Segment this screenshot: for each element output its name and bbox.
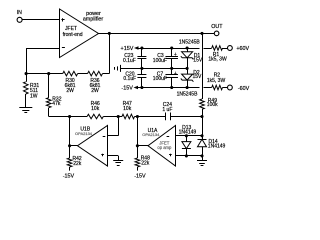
node R32 junction [47, 72, 50, 75]
svg-text:1N5245B: 1N5245B [177, 91, 199, 97]
terminal +60V [228, 46, 250, 53]
op-amp U1B OPA2134 [75, 126, 108, 167]
resistor R48 22k [135, 146, 150, 171]
resistor R47 10k [122, 101, 135, 119]
node C7 bottom junction [170, 86, 173, 89]
label 1N5245B bottom [177, 91, 199, 97]
capacitor C24 1uF [162, 102, 172, 120]
svg-text:1k5, 3W: 1k5, 3W [208, 57, 227, 63]
op-amp U1A OPA2134 [142, 126, 175, 167]
zener diode D1 1N5245B 15V [181, 48, 203, 68]
capacitor C23 0.1uF [123, 48, 146, 68]
node U1A output tip junction [136, 144, 139, 147]
ground at middle rail [115, 65, 121, 72]
ground at U1B non-inverting input [113, 161, 123, 166]
node C20 bottom junction [140, 86, 143, 89]
wire U1B inverting input [108, 117, 119, 136]
resistor R49 100k [200, 33, 218, 116]
node D1 top junction [186, 46, 189, 49]
wire lower feedback net [49, 116, 202, 118]
svg-text:+60V: +60V [236, 46, 249, 52]
svg-text:100uF: 100uF [153, 58, 167, 64]
svg-text:1k5, 3W: 1k5, 3W [207, 78, 226, 84]
resistor R31 511 1W [24, 74, 40, 108]
resistor R32 47k [46, 74, 61, 117]
svg-text:OUT: OUT [211, 24, 223, 30]
svg-text:22k: 22k [73, 161, 82, 167]
svg-text:+15V: +15V [121, 46, 134, 52]
node output junction [108, 32, 111, 35]
power tag -15V below R48 [134, 173, 146, 179]
label 1N5245B top [179, 39, 201, 45]
svg-text:1N4149: 1N4149 [208, 144, 226, 150]
wire feedback drop from output [109, 33, 111, 73]
output terminal OUT [211, 24, 223, 36]
node U1B inverting junction [117, 115, 120, 118]
node D13 top junction [185, 134, 188, 137]
wire U1B non-inverting input [108, 156, 119, 161]
svg-text:-60V: -60V [238, 86, 250, 92]
svg-text:15V: 15V [193, 57, 203, 63]
wire U1A inverting input [176, 117, 203, 136]
resistor R30 6k81 2W [63, 71, 78, 94]
svg-text:-15V: -15V [121, 85, 133, 91]
wire -15V rail [138, 87, 212, 89]
power tag -15V below R42 [63, 173, 75, 179]
node C23 bottom junction [140, 67, 143, 70]
capacitor C7 100uF [153, 68, 178, 87]
node C23 top junction [140, 46, 143, 49]
wire U1A non-inverting input [176, 156, 203, 161]
svg-text:47k: 47k [52, 101, 61, 107]
wire amplifier output to OUT [98, 33, 214, 35]
svg-text:+: + [174, 52, 177, 58]
svg-text:op amp: op amp [157, 145, 172, 150]
diode D13 1N4149 [179, 125, 197, 156]
svg-text:2W: 2W [66, 88, 74, 94]
wire +15V rail [139, 48, 212, 50]
svg-text:-15V: -15V [134, 173, 146, 179]
node R31 junction [25, 72, 28, 75]
svg-text:front-end: front-end [63, 32, 83, 38]
node D2 bottom junction [186, 86, 189, 89]
svg-text:OPA2134: OPA2134 [142, 132, 160, 137]
diode D14 1N4149 [198, 136, 226, 156]
node D13 bottom junction [185, 154, 188, 157]
zener diode D2 1N5245B 15V [181, 68, 202, 87]
svg-text:amplifier: amplifier [83, 17, 104, 23]
node U1B output tip junction [68, 144, 71, 147]
node C3 bottom junction [170, 67, 173, 70]
terminal -60V [228, 85, 250, 92]
node C24 left junction [136, 115, 139, 118]
resistor R42 22k [67, 146, 82, 171]
power tag -15V [121, 85, 138, 91]
ground at U1A non-inverting input [197, 161, 207, 166]
svg-text:-15V: -15V [63, 173, 75, 179]
svg-text:1N5245B: 1N5245B [179, 39, 201, 45]
node servo input junction [200, 115, 203, 118]
svg-text:OPA2134: OPA2134 [75, 131, 93, 136]
wire U1B output [70, 117, 78, 146]
input terminal IN [17, 10, 22, 22]
wire inverting input of power amp [26, 48, 59, 73]
svg-text:0.1uF: 0.1uF [123, 58, 136, 64]
node D1 bottom junction [186, 67, 189, 70]
ground below R31 [19, 108, 32, 113]
svg-text:100uF: 100uF [153, 76, 167, 82]
svg-text:15V: 15V [193, 74, 203, 80]
wire feedback net [26, 73, 109, 75]
svg-text:100k: 100k [207, 102, 218, 108]
svg-text:1N4149: 1N4149 [179, 129, 197, 135]
svg-text:1W: 1W [30, 94, 38, 100]
svg-text:10k: 10k [91, 106, 100, 112]
wire IN to amplifier + input [22, 19, 59, 21]
resistor R2 1k5 3W [207, 73, 228, 90]
svg-text:IN: IN [17, 10, 22, 16]
node U1B output junction [68, 115, 71, 118]
node D14 bottom junction [200, 154, 203, 157]
resistor R1 1k5 3W [208, 46, 227, 63]
wire middle rail [120, 68, 187, 70]
svg-text:22k: 22k [141, 160, 150, 166]
resistor R36 6k81 2W [88, 71, 103, 94]
node servo inverting junction [200, 134, 203, 137]
svg-text:+: + [174, 71, 177, 77]
power amplifier U (JFET front-end) [60, 9, 104, 58]
capacitor C20 0.1uF [123, 68, 146, 87]
capacitor C3 100uF [153, 48, 178, 68]
node servo sense junction [200, 32, 203, 35]
wire U1A output [137, 117, 148, 146]
power tag +15V [121, 46, 139, 52]
node C3 top junction [170, 46, 173, 49]
svg-text:0.1uF: 0.1uF [123, 76, 136, 82]
svg-text:1 uF: 1 uF [162, 107, 172, 113]
svg-text:2W: 2W [91, 88, 99, 94]
resistor R46 10k [87, 101, 103, 119]
svg-text:10k: 10k [123, 106, 132, 112]
